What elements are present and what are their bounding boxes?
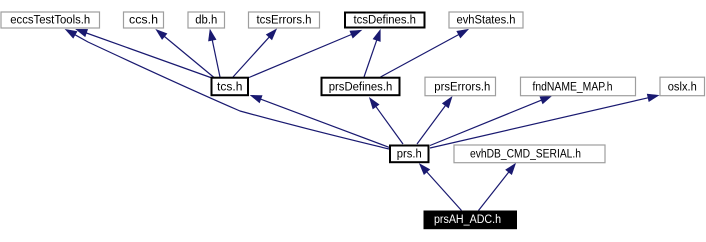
wire edge prs.h->eccsTestTools.h [66,29,390,149]
wire edge prs.h->oslx.h [430,94,659,148]
svg-text:prsAH_ADC.h: prsAH_ADC.h [434,214,501,226]
wire edge prsDefines.h->evhStates.h [381,29,469,77]
svg-text:evhDB_CMD_SERIAL.h: evhDB_CMD_SERIAL.h [470,149,581,161]
node ccs.h [124,12,164,28]
wire edge prs.h->tcs.h [251,95,390,147]
svg-text:tcsDefines.h: tcsDefines.h [354,15,417,27]
svg-text:prsDefines.h: prsDefines.h [329,82,393,94]
node prs.h [390,146,429,163]
svg-text:tcsErrors.h: tcsErrors.h [257,15,312,27]
wire edge tcs.h->ccs.h [156,30,214,78]
node evhStates.h [449,12,523,28]
svg-text:eccsTestTools.h: eccsTestTools.h [10,15,90,27]
svg-text:db.h: db.h [195,15,217,27]
node tcsDefines.h [345,13,425,28]
wire edge prsAH_ADC.h->prs.h [420,164,462,211]
wire edge tcs.h->tcsDefines.h [249,30,362,77]
node oslx.h [660,77,705,96]
wire edge tcs.h->db.h [209,30,221,78]
wire edge prs.h->prsDefines.h [370,98,404,144]
wire edge tcs.h->eccsTestTools.h [76,29,212,78]
node eccsTestTools.h [1,12,100,28]
node tcsErrors.h [249,12,320,28]
wire edge prs.h->prsErrors.h [417,97,452,144]
wire edge tcs.h->tcsErrors.h [233,29,277,77]
svg-text:oslx.h: oslx.h [668,82,697,94]
node tcs.h [212,78,249,96]
svg-text:evhStates.h: evhStates.h [457,15,516,27]
wire edge prsDefines.h->tcsDefines.h [364,30,380,77]
node fndNAME_MAP.h [521,77,636,96]
node db.h [188,12,225,28]
node prsAH_ADC.h [424,211,518,230]
svg-text:ccs.h: ccs.h [129,15,158,27]
svg-text:fndNAME_MAP.h: fndNAME_MAP.h [533,82,613,94]
wire edge prs.h->fndNAME_MAP.h [430,96,552,146]
node prsDefines.h [322,78,400,96]
node evhDB_CMD_SERIAL.h [454,145,605,163]
svg-text:tcs.h: tcs.h [217,82,242,94]
node prsErrors.h [425,77,496,96]
svg-text:prsErrors.h: prsErrors.h [434,82,490,94]
svg-text:prs.h: prs.h [397,149,422,161]
wire edge prsAH_ADC.h->evhDB_CMD_SERIAL.h [479,164,516,211]
